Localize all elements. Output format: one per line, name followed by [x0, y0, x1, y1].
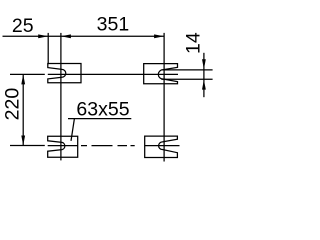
svg-text:351: 351 [97, 14, 130, 36]
bottom centerline solid through right foot [145, 145, 180, 147]
left dimension line 220 [22, 74, 24, 145]
svg-text:14: 14 [183, 32, 205, 54]
arrow 25 right-pointing [38, 34, 48, 38]
top centerline [48, 73, 178, 75]
14 extension top [162, 69, 213, 71]
top dimension line [3, 35, 165, 37]
leader shoulder 63x55 [68, 118, 131, 120]
extension line H1 (220 top) [10, 73, 45, 75]
extension line V1 (25 left) [47, 33, 49, 64]
arrow 351 left-pointing [61, 34, 71, 38]
foot top-left [48, 64, 81, 83]
leader slant 63x55 [71, 119, 74, 141]
bottom centerline solid through left foot [48, 145, 78, 147]
arrow 14 up [202, 80, 206, 90]
foot bottom-right [145, 136, 178, 157]
foot bottom-left [48, 136, 78, 157]
arrow 220 up [21, 74, 25, 84]
14 extension bottom [162, 78, 213, 80]
svg-text:63x55: 63x55 [76, 98, 129, 120]
extension line V2 (351 left / slot centerline left) [60, 33, 62, 160]
extension line V3 (351 right / slot centerline right) [163, 33, 165, 162]
svg-text:220: 220 [2, 88, 24, 121]
bottom centerline dashed [81, 145, 135, 147]
14 dimension line [203, 53, 205, 97]
svg-text:25: 25 [12, 15, 34, 37]
arrow 14 down [202, 59, 206, 69]
extension line H2 (220 bottom) [10, 145, 45, 147]
foot top-right [144, 64, 178, 84]
arrow 351 right-pointing [154, 34, 164, 38]
arrow 220 down [21, 136, 25, 146]
